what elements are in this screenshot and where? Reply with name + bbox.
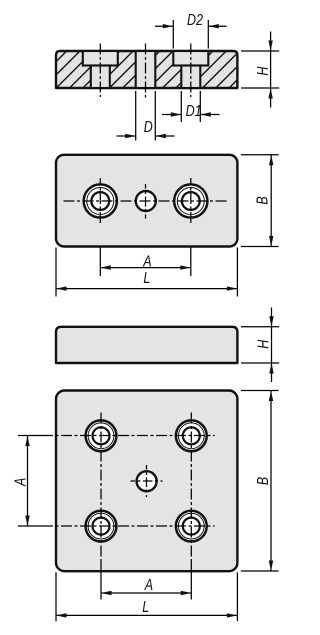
vertical centerline right hole column xyxy=(190,413,192,600)
dimension D1 (through hole dia, below section) xyxy=(162,91,220,122)
center hole D (section) xyxy=(136,51,156,88)
center hole (top view) xyxy=(136,184,156,219)
counterbored hole top-left xyxy=(86,420,117,451)
svg-text:B: B xyxy=(254,196,272,205)
center hole (square plate) xyxy=(131,465,163,497)
counterbored hole top-right xyxy=(176,420,207,451)
svg-text:D: D xyxy=(144,118,153,136)
through hole right (section) xyxy=(181,66,200,89)
dimension D (center hole dia, below section) xyxy=(117,91,175,141)
svg-text:A: A xyxy=(142,253,151,271)
svg-text:H: H xyxy=(255,339,273,349)
dimension H (plate thickness, right of view 3) xyxy=(241,308,279,383)
counterbore recess left (section) xyxy=(83,51,118,66)
plate outline (top view) xyxy=(56,155,237,247)
plate body (sectioned, hatched) xyxy=(56,51,237,88)
dimension B (plate width, right of square plate) xyxy=(241,391,279,572)
centerline right hole (section) xyxy=(190,44,192,98)
plate outline (side view) xyxy=(56,327,237,363)
counterbored hole bottom-right xyxy=(176,511,207,542)
svg-text:B: B xyxy=(255,476,273,485)
svg-text:A: A xyxy=(12,478,30,487)
dimension L (plate length, below view 2) xyxy=(56,248,237,297)
counterbore recess right (section) xyxy=(173,51,208,66)
counterbored hole bottom-left xyxy=(86,511,117,542)
dimension A (hole spacing horizontal, below square plate) xyxy=(101,577,191,595)
dimension D2 (counterbore dia, top) xyxy=(155,12,227,49)
svg-text:D1: D1 xyxy=(186,103,202,121)
counterbored hole left (top view) xyxy=(84,178,117,224)
dimension A (hole spacing, below view 2) xyxy=(100,248,191,277)
vertical centerline left hole column xyxy=(100,413,102,600)
horizontal centerline through holes xyxy=(64,200,228,202)
svg-text:L: L xyxy=(143,270,150,288)
svg-text:H: H xyxy=(255,66,273,76)
centerline center hole (section) xyxy=(145,44,147,98)
through hole left (section) xyxy=(91,66,110,89)
svg-text:A: A xyxy=(144,577,153,595)
plate outline (square top view) xyxy=(56,391,237,572)
dimension H (plate thickness, right of section) xyxy=(241,32,279,108)
centerline left hole (section) xyxy=(99,44,101,98)
horizontal centerline top hole row xyxy=(18,435,215,437)
horizontal centerline bottom hole row xyxy=(18,525,215,527)
svg-text:D2: D2 xyxy=(187,12,203,30)
dimension L (plate length, bottom) xyxy=(56,572,237,621)
counterbored hole right (top view) xyxy=(174,178,207,224)
dimension B (plate width, right) xyxy=(241,155,279,247)
svg-text:L: L xyxy=(142,599,149,617)
dimension A (hole spacing vertical, left) xyxy=(12,436,30,527)
